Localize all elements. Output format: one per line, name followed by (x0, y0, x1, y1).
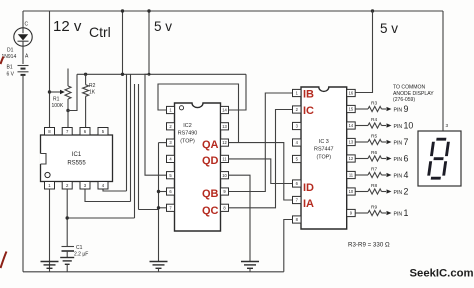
IC1 pin 5 (98, 128, 108, 136)
svg-text:13: 13 (349, 140, 354, 145)
svg-text:R2: R2 (89, 83, 96, 89)
wire 5V right to IC3 pin 16 (355, 11, 372, 93)
IC3 pin 15 (347, 105, 356, 112)
IC3 pin 7 (293, 196, 302, 203)
IC3 pin 14 (347, 122, 356, 129)
junction dot IC2 pin 7 (157, 206, 160, 209)
ground IC1 pin 1 (41, 261, 59, 263)
wire IC1 pin 3 horizontal (85, 189, 131, 202)
wire IC1 pin 4 horizontal (103, 189, 127, 192)
arrow to display PIN 1 (387, 211, 392, 215)
svg-text:10: 10 (222, 173, 227, 178)
wire IC1 pin 2 horizontal (67, 217, 134, 219)
wire diode branch top (22, 11, 24, 28)
diode D1 1N914 (14, 28, 32, 46)
junction dot R2 top (84, 73, 87, 76)
red scan mark lower left edge (1, 252, 7, 269)
IC2 pin 14 (221, 106, 229, 113)
svg-text:C: C (25, 22, 29, 28)
ground IC2 reset rail (150, 261, 168, 263)
svg-text:RS555: RS555 (67, 161, 86, 167)
resistor R3 (355, 108, 368, 110)
wire 5V left vertical (148, 11, 150, 74)
svg-text:R3: R3 (371, 101, 377, 107)
IC3 RS7447 body with top notch (301, 87, 347, 229)
svg-text:10: 10 (349, 189, 354, 194)
IC2 pin 9 (221, 188, 229, 195)
resistor R1 100K (67, 69, 69, 87)
IC2 pin 3 (167, 139, 175, 146)
junction dot 5V corner (148, 73, 151, 76)
wire bus line B down to IC1 pin 3 route (130, 74, 132, 201)
wire 12V line to IC1 pin 8 (49, 11, 51, 128)
wire R1 bottom to IC1 pin 7 (67, 111, 69, 128)
svg-text:(TOP): (TOP) (317, 155, 332, 161)
arrow to display PIN 10 (387, 123, 392, 127)
svg-text:R9: R9 (371, 205, 377, 211)
IC3 pin 12 (347, 155, 356, 162)
wire bottom ground rail (23, 271, 284, 273)
svg-text:(276-059): (276-059) (393, 97, 415, 103)
IC2 pin 5 (167, 172, 175, 179)
svg-text:QB: QB (202, 188, 219, 200)
IC3 pin 5 (293, 155, 302, 162)
IC2 pin 12 (221, 139, 229, 146)
svg-text:6 V: 6 V (7, 72, 15, 78)
svg-text:IB: IB (303, 89, 314, 101)
svg-text:4: 4 (404, 170, 409, 180)
svg-text:IC2: IC2 (183, 123, 191, 129)
wire QC net IC2 pin 8 to IC3 pin 2 IC (229, 110, 293, 208)
svg-text:SeekIC.com: SeekIC.com (410, 268, 474, 280)
svg-text:12: 12 (349, 156, 354, 161)
IC3 pin 2 (293, 106, 302, 113)
svg-text:14: 14 (222, 108, 227, 113)
svg-text:3: 3 (446, 123, 449, 128)
wire top supply rail (23, 10, 443, 12)
arrow to display PIN 9 (387, 107, 392, 111)
svg-text:13: 13 (222, 124, 227, 129)
resistor R9 (355, 212, 368, 214)
arrow to display PIN 7 (387, 140, 392, 144)
wire QB net IC2 pin 9 to IC3 pin 1 IB (229, 93, 293, 192)
IC2 pin 11 (221, 155, 229, 162)
IC1 pin 7 (62, 128, 72, 136)
ground IC2 pin 10 (241, 261, 259, 263)
svg-text:C1: C1 (76, 245, 83, 251)
svg-text:RS7447: RS7447 (314, 147, 333, 153)
svg-text:R1: R1 (53, 97, 60, 103)
arrow to display PIN 6 (387, 156, 392, 160)
IC2 pin 2 (167, 123, 175, 130)
wire IC2 pin 6 stub (159, 191, 167, 193)
svg-text:11: 11 (222, 157, 227, 162)
svg-text:D1: D1 (7, 48, 14, 54)
potentiometer R1 100K wiper arrow (50, 91, 61, 93)
resistor R2 1K (85, 74, 87, 84)
svg-text:2.2 µF: 2.2 µF (74, 252, 88, 258)
svg-text:15: 15 (349, 107, 354, 112)
svg-text:100K: 100K (52, 103, 64, 109)
svg-text:PIN: PIN (394, 107, 403, 113)
svg-text:IC 3: IC 3 (319, 139, 329, 145)
seven segment digit 8 (428, 139, 448, 178)
arrow to display PIN 4 (387, 173, 392, 177)
svg-text:Ctrl: Ctrl (89, 24, 111, 40)
IC2 pin 10 (221, 172, 229, 179)
junction dot IC2 pin 6 (157, 190, 160, 193)
junction dot IC1 pin 2 (66, 216, 69, 219)
svg-text:2: 2 (404, 187, 409, 197)
svg-text:PIN: PIN (394, 124, 403, 130)
wire bus line D horizontal to rail (139, 209, 159, 211)
IC2 pin 13 (221, 123, 229, 130)
IC2 pin 1 (167, 106, 175, 113)
junction dot R1 bottom (66, 109, 69, 112)
svg-text:R3-R9 = 330 Ω: R3-R9 = 330 Ω (348, 242, 390, 249)
svg-text:PIN: PIN (394, 211, 403, 217)
wire Ctrl vertical (122, 11, 124, 74)
IC3 pin 1 (293, 89, 302, 96)
svg-text:PIN: PIN (394, 140, 403, 146)
wire R1 bottom up to control node (68, 74, 77, 110)
IC3 pin 10 (347, 188, 356, 195)
IC3 pin 4 (293, 139, 302, 146)
svg-text:TO COMMON: TO COMMON (393, 85, 425, 91)
junction dot 12V wiper tap (48, 90, 51, 93)
IC3 pin 11 (347, 171, 356, 178)
wire feedback loop IC2 pin 1 to pin 12 (158, 84, 239, 143)
svg-text:R6: R6 (371, 150, 377, 156)
ground C1 (60, 257, 74, 259)
IC1 pin 2 (62, 182, 72, 190)
svg-text:R5: R5 (371, 134, 377, 140)
wire bus line E 5V jog to IC2 pin 5 (145, 74, 167, 175)
svg-text:5 v: 5 v (154, 19, 172, 34)
svg-text:A: A (25, 54, 29, 60)
junction dot Ctrl top (121, 9, 124, 12)
IC1 pin 4 (98, 182, 108, 190)
wire IC2 reset rail (158, 143, 160, 262)
svg-text:12: 12 (222, 140, 227, 145)
wire bus line D to IC2 reset rail (138, 84, 140, 210)
svg-text:ID: ID (303, 182, 314, 194)
svg-text:PIN: PIN (394, 173, 403, 179)
svg-text:10: 10 (404, 121, 414, 131)
svg-text:11: 11 (349, 173, 354, 178)
svg-text:PIN: PIN (394, 190, 403, 196)
capacitor C1 2.2uF (62, 246, 75, 248)
IC1 pin 1 indicator circle (45, 172, 50, 177)
svg-text:B1: B1 (7, 65, 13, 71)
seven segment display outline (418, 131, 461, 186)
IC1 pin 6 (80, 128, 90, 136)
svg-text:IC1: IC1 (72, 152, 82, 158)
battery B1 6V (18, 65, 29, 67)
IC2 pin 7 (167, 204, 175, 211)
wire 5V branch to IC2 pin 14 (229, 74, 247, 110)
svg-text:16: 16 (349, 91, 354, 96)
wire QD net IC2 pin 11 to IC3 pin 6 ID (229, 159, 293, 184)
IC3 pin 9 (347, 209, 356, 216)
svg-text:IC: IC (303, 105, 314, 117)
svg-text:RS7490: RS7490 (178, 131, 197, 137)
IC1 pin 3 (80, 182, 90, 190)
IC1 RS555 body (41, 135, 113, 182)
svg-text:5 v: 5 v (380, 21, 398, 36)
wire display anode drop from top rail (442, 11, 444, 131)
arrow to display PIN 2 (387, 189, 392, 193)
IC2 RS7490 body with top notch (175, 103, 221, 231)
svg-text:6: 6 (404, 154, 409, 164)
svg-text:R8: R8 (371, 183, 377, 189)
IC1 left edge notch (40, 154, 46, 165)
resistor R6 (355, 158, 368, 160)
IC2 pin 8 (221, 204, 229, 211)
wire control node horizontal (77, 73, 246, 75)
IC3 pin 13 (347, 138, 356, 145)
svg-text:QC: QC (202, 205, 219, 217)
svg-text:QA: QA (202, 139, 219, 151)
svg-text:9: 9 (404, 104, 409, 114)
wire IC2 pin 3 stub (159, 142, 167, 144)
wire diode to battery (22, 46, 24, 64)
svg-text:QD: QD (202, 155, 219, 167)
svg-text:IA: IA (303, 198, 314, 210)
IC3 pin 8 (293, 216, 302, 223)
wire IC2 pin 10 to ground (229, 175, 251, 261)
IC3 pin 3 (293, 122, 302, 129)
resistor R8 (355, 191, 368, 193)
wire IC2 pin 7 stub (159, 207, 167, 209)
wire QA net IC2 pin 12 to IC3 pin 7 IA (229, 143, 293, 200)
IC1 pin 8 (45, 128, 55, 136)
resistor R4 (355, 125, 368, 127)
IC2 pin 4 (167, 155, 175, 162)
svg-text:R7: R7 (371, 167, 377, 173)
wire battery to ground rail (22, 75, 24, 272)
IC1 pin 1 (45, 182, 55, 190)
IC2 pin 6 (167, 188, 175, 195)
svg-text:14: 14 (349, 123, 354, 128)
junction dot 5V right top (371, 9, 374, 12)
svg-text:ANODE DISPLAY: ANODE DISPLAY (393, 91, 434, 97)
wire IC1 pin 1 to ground (49, 189, 51, 272)
svg-text:1: 1 (404, 208, 409, 218)
IC2 pin 1 indicator circle (179, 106, 183, 110)
svg-text:PIN: PIN (394, 157, 403, 163)
red scan mark upper left edge (1, 57, 4, 65)
junction dot Ctrl bottom (121, 73, 124, 76)
IC3 pin 16 (347, 89, 356, 96)
IC3 pin 6 (293, 180, 302, 187)
svg-text:1K: 1K (89, 90, 96, 96)
wire bus line A down to IC1 pin 4 route (126, 74, 128, 191)
svg-text:(TOP): (TOP) (180, 139, 195, 145)
svg-text:7: 7 (404, 137, 409, 147)
resistor R5 (355, 141, 368, 143)
wire IC3 pin 8 to ground rail (284, 220, 293, 272)
svg-text:R4: R4 (371, 117, 377, 123)
wire IC1 pin 2 down to C1 (66, 189, 68, 246)
wire bus line C down to IC1 pin 2 route (134, 84, 136, 218)
svg-text:12 v: 12 v (53, 18, 82, 35)
junction dot 5V left top (147, 9, 150, 12)
resistor R7 (355, 174, 368, 176)
